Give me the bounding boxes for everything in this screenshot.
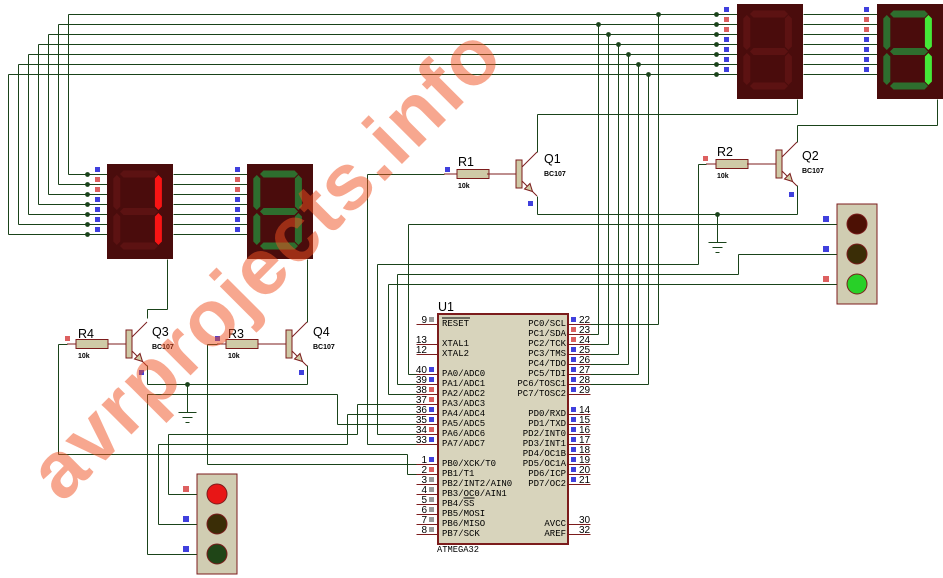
wire TR1-green to pin35 xyxy=(338,424,417,426)
pin indicator U1 right y=344 xyxy=(571,337,576,342)
wire TR2-yellow to pin39 xyxy=(398,384,417,386)
transistor Q4 emitter line xyxy=(292,351,302,361)
transistor Q3 emitter arrowhead xyxy=(135,354,143,362)
U1 right pin stub y=394 xyxy=(569,394,591,396)
wire net-R4 vertical x=58 xyxy=(58,345,60,455)
pin indicator Q4 emitter xyxy=(299,370,304,375)
resistor R4 pin xyxy=(108,343,126,345)
U1 left pin stub y=434 xyxy=(417,434,439,436)
svg-text:PB4/SS: PB4/SS xyxy=(442,499,474,509)
wire PC pin row y=344 xyxy=(591,344,609,346)
pin indicator DS1 row7 xyxy=(95,227,100,232)
wire seg-bus1 left vertical xyxy=(58,25,60,185)
U1 right pin stub y=434 xyxy=(569,434,591,436)
display DS1 segment e xyxy=(113,213,120,245)
wire seg-bus5 to display DS1 pin xyxy=(19,224,108,226)
wire seg-bus0 top horizontal xyxy=(69,14,738,16)
svg-text:PC4/TDO: PC4/TDO xyxy=(528,359,566,369)
wire DS1-DS2 row y=234 xyxy=(174,234,248,236)
wire TR1-green pin row xyxy=(148,554,198,556)
wire TR1-red vertical x=357 xyxy=(357,405,359,435)
7-segment display DS3 body xyxy=(737,4,803,99)
display DS2 segment a xyxy=(260,171,298,178)
ground symbol left bars xyxy=(179,412,197,414)
TL2 yellow lamp (off) xyxy=(847,244,867,264)
pin indicator U1 left y=394 xyxy=(429,387,434,392)
display DS3 segment a xyxy=(750,11,788,18)
resistor R1 body xyxy=(457,170,489,179)
pin indicator DS4 row3 xyxy=(864,27,869,32)
wire DS1-DS2 row y=224 xyxy=(174,224,248,226)
transistor Q4 collector line xyxy=(292,322,307,337)
pin indicator U1 left y=504 xyxy=(429,497,434,502)
pin indicator DS4 row7 xyxy=(864,67,869,72)
svg-text:PA4/ADC4: PA4/ADC4 xyxy=(442,409,485,419)
pin indicator U1 left y=514 xyxy=(429,507,434,512)
svg-text:9: 9 xyxy=(421,315,427,326)
wire DS2 common down xyxy=(307,260,309,323)
U1 left pin stub y=424 xyxy=(417,424,439,426)
pin indicator U1 left y=464 xyxy=(429,457,434,462)
svg-text:ATMEGA32: ATMEGA32 xyxy=(437,545,479,555)
svg-text:PA5/ADC5: PA5/ADC5 xyxy=(442,419,485,429)
wire DS3-DS4 row y=64 xyxy=(804,64,878,66)
pin indicator U1 left y=374 xyxy=(429,367,434,372)
svg-text:RESET: RESET xyxy=(442,319,470,329)
wire DS1-DS2 row y=174 xyxy=(174,174,248,176)
ATMEGA32 U1 chip body xyxy=(438,314,568,544)
wire PC bus vertical x=608 xyxy=(608,35,610,345)
wire Q3 emitter vertical xyxy=(147,366,149,385)
wire Q1 emitter vertical xyxy=(537,197,539,215)
pin indicator U1 left y=444 xyxy=(429,437,434,442)
display DS1 segment d xyxy=(120,243,158,250)
7-segment display DS4 body xyxy=(877,4,943,99)
display DS4 segment g xyxy=(890,48,928,55)
pin indicator DS3 row2 xyxy=(724,17,729,22)
wire DS3-DS4 row y=14 xyxy=(804,14,878,16)
wire net-R4 to pin2 xyxy=(408,474,417,476)
U1 left pin stub y=414 xyxy=(417,414,439,416)
svg-text:PD0/RXD: PD0/RXD xyxy=(528,409,566,419)
wire PC bus vertical x=628 xyxy=(628,55,630,365)
pin indicator TR2 yellow xyxy=(823,246,829,252)
svg-text:AREF: AREF xyxy=(544,529,566,539)
pin indicator U1 right y=374 xyxy=(571,367,576,372)
U1 left pin stub y=374 xyxy=(417,374,439,376)
display DS3 segment g xyxy=(750,48,788,55)
junction on bus row y=14 xyxy=(656,12,661,17)
pin indicator DS1 row5 xyxy=(95,207,100,212)
svg-text:PC6/TOSC1: PC6/TOSC1 xyxy=(517,379,566,389)
wire seg-bus6 to display DS1 pin xyxy=(9,234,108,236)
pin indicator U1 right y=484 xyxy=(571,477,576,482)
wire seg-bus3 left vertical xyxy=(38,45,40,205)
pin indicator U1 right y=394 xyxy=(571,387,576,392)
wire TR2-yellow jog vertical xyxy=(738,255,740,275)
U1 left pin stub y=484 xyxy=(417,484,439,486)
display DS4 segment c xyxy=(925,53,932,85)
wire seg-bus0 left vertical xyxy=(68,15,70,175)
svg-text:PA7/ADC7: PA7/ADC7 xyxy=(442,439,485,449)
wire net-R1 to pin33 xyxy=(368,444,417,446)
wire TR1-yellow horizontal y=444 xyxy=(159,444,348,446)
U1 right pin stub y=534 xyxy=(569,534,591,536)
pin indicator U1 left y=324 xyxy=(429,317,434,322)
pin indicator Q2 emitter xyxy=(789,192,794,197)
U1 right pin stub y=444 xyxy=(569,444,591,446)
wire seg-bus2 to display DS1 pin xyxy=(49,194,108,196)
U1 left pin stub y=394 xyxy=(417,394,439,396)
svg-text:PD3/INT1: PD3/INT1 xyxy=(523,439,566,449)
wire ground rail left xyxy=(148,384,308,386)
wire PC bus vertical x=638 xyxy=(638,65,640,375)
wire TR2-green horizontal y=284 xyxy=(389,284,838,286)
resistor R2 body xyxy=(716,160,748,169)
wire DS3-DS4 row y=44 xyxy=(804,44,878,46)
svg-text:BC107: BC107 xyxy=(802,168,824,175)
transistor Q2 emitter line xyxy=(782,171,792,181)
display DS4 segment b xyxy=(925,15,932,50)
pin indicator U1 right y=364 xyxy=(571,357,576,362)
wire net-R1 vertical x=367 xyxy=(367,175,369,445)
transistor Q2 collector line xyxy=(782,142,797,157)
transistor Q4 emitter arrowhead xyxy=(295,354,303,362)
resistor R3 body xyxy=(226,340,258,349)
svg-text:Q1: Q1 xyxy=(544,152,561,166)
U1 right pin stub y=414 xyxy=(569,414,591,416)
pin indicator R2 left xyxy=(703,156,708,161)
svg-text:PA0/ADC0: PA0/ADC0 xyxy=(442,369,485,379)
pin indicator DS4 row5 xyxy=(864,47,869,52)
svg-text:32: 32 xyxy=(579,525,591,536)
pin indicator DS2 row7 xyxy=(235,227,240,232)
svg-text:R1: R1 xyxy=(458,155,474,169)
U1 right pin stub y=324 xyxy=(569,324,591,326)
wire TR1-green vertical x=147 xyxy=(147,395,149,555)
wire TR2-yellow pin row xyxy=(739,254,838,256)
wire TR1-yellow pin row xyxy=(159,524,198,526)
pin indicator DS2 row4 xyxy=(235,197,240,202)
resistor R2 pin xyxy=(747,163,776,165)
display DS1 segment g xyxy=(120,208,158,215)
junction DS3 pin y=24 xyxy=(714,22,719,27)
junction DS1 pin y=204 xyxy=(85,202,90,207)
svg-text:8: 8 xyxy=(421,525,427,536)
junction on bus row y=34 xyxy=(606,32,611,37)
display DS2 segment f xyxy=(253,175,260,210)
wire TR2-yellow vertical x=397 xyxy=(397,275,399,385)
junction DS1 pin y=174 xyxy=(85,172,90,177)
wire ground stem left xyxy=(187,385,189,413)
wire DS1 common down xyxy=(167,260,169,310)
pin indicator DS2 row1 xyxy=(235,167,240,172)
wire PC bus vertical x=618 xyxy=(618,45,620,355)
wire TR1-green horizontal y=394 xyxy=(148,394,338,396)
U1 left pin stub y=464 xyxy=(417,464,439,466)
display DS2 segment e xyxy=(253,213,260,245)
svg-text:PD7/OC2: PD7/OC2 xyxy=(528,479,566,489)
transistor Q3 BC107 body bar xyxy=(126,330,132,358)
transistor Q3 collector line xyxy=(132,322,147,337)
wire seg-bus3 top horizontal xyxy=(39,44,738,46)
display DS4 segment f xyxy=(883,15,890,50)
wire DS3 common horizontal xyxy=(538,114,798,116)
pin indicator DS3 row4 xyxy=(724,37,729,42)
wire net-R2 vertical x=698 xyxy=(698,165,700,265)
TL1 red lamp (lit) xyxy=(207,484,227,504)
junction ground right xyxy=(715,212,720,217)
wire R3 left wire xyxy=(208,344,218,346)
wire TR2-red vertical x=408 xyxy=(408,225,410,375)
U1 right pin stub y=354 xyxy=(569,354,591,356)
display DS3 segment e xyxy=(743,53,750,85)
U1 left pin stub y=384 xyxy=(417,384,439,386)
wire PC pin row y=324 xyxy=(591,324,659,326)
pin indicator DS2 row6 xyxy=(235,217,240,222)
wire DS3 common down xyxy=(797,100,799,115)
svg-text:R4: R4 xyxy=(78,327,94,341)
wire net-R2 vertical x=377 xyxy=(377,265,379,435)
pin indicator U1 left y=434 xyxy=(429,427,434,432)
pin indicator R4 left xyxy=(65,336,70,341)
U1 right pin stub y=364 xyxy=(569,364,591,366)
wire DS3-DS4 row y=34 xyxy=(804,34,878,36)
junction DS1 pin y=214 xyxy=(85,212,90,217)
wire Q3 collector vertical xyxy=(147,310,149,319)
TL1 green lamp (off) xyxy=(207,544,227,564)
resistor R3 pin xyxy=(217,343,226,345)
wire seg-bus6 left vertical xyxy=(8,75,10,235)
wire DS1-DS2 row y=204 xyxy=(174,204,248,206)
wire seg-bus3 to display DS1 pin xyxy=(39,204,108,206)
pin indicator U1 right y=324 xyxy=(571,317,576,322)
svg-text:PB7/SCK: PB7/SCK xyxy=(442,529,480,539)
pin indicator DS4 row2 xyxy=(864,17,869,22)
wire TR1-red horizontal y=434 xyxy=(169,434,358,436)
wire DS1-DS2 row y=194 xyxy=(174,194,248,196)
svg-text:PD4/OC1B: PD4/OC1B xyxy=(523,449,567,459)
pin indicator DS2 row5 xyxy=(235,207,240,212)
U1 right pin stub y=424 xyxy=(569,424,591,426)
wire seg-bus2 top horizontal xyxy=(49,34,738,36)
wire PC pin row y=384 xyxy=(591,384,649,386)
transistor Q2 emitter arrowhead xyxy=(785,174,793,182)
wire TR2-green to pin38 xyxy=(389,394,417,396)
U1 left pin stub y=444 xyxy=(417,444,439,446)
wire net-R3 vertical x=207 xyxy=(207,345,209,465)
pin indicator U1 right y=414 xyxy=(571,407,576,412)
display DS1 segment a xyxy=(120,171,158,178)
pin indicator U1 right y=454 xyxy=(571,447,576,452)
display DS2 segment g xyxy=(260,208,298,215)
svg-text:BC107: BC107 xyxy=(544,171,566,178)
wire seg-bus1 to display DS1 pin xyxy=(59,184,108,186)
7-segment display DS2 body xyxy=(247,164,313,259)
pin indicator U1 right y=334 xyxy=(571,327,576,332)
svg-text:PB6/MISO: PB6/MISO xyxy=(442,519,485,529)
resistor R1 pin xyxy=(487,173,516,175)
svg-text:Q4: Q4 xyxy=(313,325,330,339)
display DS3 segment b xyxy=(785,15,792,50)
svg-text:PA3/ADC3: PA3/ADC3 xyxy=(442,399,485,409)
wire R4 left wire xyxy=(59,344,68,346)
pin indicator DS4 row6 xyxy=(864,57,869,62)
junction DS1 pin y=194 xyxy=(85,192,90,197)
pin indicator R3 left xyxy=(215,336,220,341)
pin indicator DS3 row5 xyxy=(724,47,729,52)
pin indicator U1 right y=434 xyxy=(571,427,576,432)
display DS3 segment c xyxy=(785,53,792,85)
pin indicator U1 left y=494 xyxy=(429,487,434,492)
pin indicator U1 right y=424 xyxy=(571,417,576,422)
svg-text:PC2/TCK: PC2/TCK xyxy=(528,339,566,349)
svg-text:PB1/T1: PB1/T1 xyxy=(442,469,474,479)
wire PC pin row y=334 xyxy=(591,334,599,336)
wire Q1 collector vertical xyxy=(537,115,539,153)
wire DS3-DS4 row y=74 xyxy=(804,74,878,76)
transistor Q1 collector line xyxy=(522,152,537,167)
junction on bus row y=64 xyxy=(636,62,641,67)
wire seg-bus5 left vertical xyxy=(18,65,20,225)
wire seg-bus4 top horizontal xyxy=(29,54,738,56)
display DS2 segment c xyxy=(295,213,302,245)
svg-text:PB0/XCK/T0: PB0/XCK/T0 xyxy=(442,459,496,469)
display DS1 segment c xyxy=(155,213,162,245)
svg-text:PB5/MOSI: PB5/MOSI xyxy=(442,509,485,519)
pin indicator U1 left y=524 xyxy=(429,517,434,522)
display DS4 segment a xyxy=(890,11,928,18)
U1 right pin stub y=454 xyxy=(569,454,591,456)
display DS1 segment f xyxy=(113,175,120,210)
U1 right pin stub y=374 xyxy=(569,374,591,376)
U1 left pin stub y=534 xyxy=(417,534,439,536)
wire PC bus vertical x=648 xyxy=(648,75,650,385)
svg-text:BC107: BC107 xyxy=(313,344,335,351)
U1 left pin stub y=514 xyxy=(417,514,439,516)
svg-text:PD2/INT0: PD2/INT0 xyxy=(523,429,566,439)
display DS4 segment e xyxy=(883,53,890,85)
wire DS1-DS2 row y=184 xyxy=(174,184,248,186)
junction on bus row y=24 xyxy=(596,22,601,27)
pin indicator U1 right y=354 xyxy=(571,347,576,352)
svg-text:PC3/TMS: PC3/TMS xyxy=(528,349,566,359)
U1 right pin stub y=334 xyxy=(569,334,591,336)
wire TR1-red vertical x=168 xyxy=(168,435,170,495)
wire TR1-red to pin37 xyxy=(358,404,417,406)
pin indicator Q1 emitter xyxy=(528,201,533,206)
pin indicator TR1 yellow xyxy=(183,516,189,522)
pin indicator R1 left xyxy=(445,167,450,172)
pin indicator DS3 row1 xyxy=(724,7,729,12)
pin indicator DS2 row3 xyxy=(235,187,240,192)
pin indicator U1 left y=404 xyxy=(429,397,434,402)
wire seg-bus2 left vertical xyxy=(48,35,50,195)
pin indicator U1 left y=384 xyxy=(429,377,434,382)
resistor R4 body xyxy=(76,340,108,349)
wire seg-bus0 to display DS1 pin xyxy=(69,174,108,176)
wire DS3-DS4 row y=54 xyxy=(804,54,878,56)
wire DS1 common horizontal xyxy=(148,309,168,311)
wire net-R3 to pin1 xyxy=(208,464,417,466)
wire TR1-yellow to pin36 xyxy=(348,414,417,416)
junction DS3 pin y=34 xyxy=(714,32,719,37)
svg-text:PA2/ADC2: PA2/ADC2 xyxy=(442,389,485,399)
junction on bus row y=74 xyxy=(646,72,651,77)
pin indicator U1 left y=414 xyxy=(429,407,434,412)
wire seg-bus6 top horizontal xyxy=(9,74,738,76)
wire seg-bus4 to display DS1 pin xyxy=(29,214,108,216)
pin indicator U1 right y=444 xyxy=(571,437,576,442)
svg-text:PC1/SDA: PC1/SDA xyxy=(528,329,566,339)
display DS3 segment d xyxy=(750,83,788,90)
wire ground rail right xyxy=(538,214,798,216)
pin indicator DS1 row4 xyxy=(95,197,100,202)
pin indicator TR1 green xyxy=(183,546,189,552)
pin indicator DS3 row6 xyxy=(724,57,729,62)
wire seg-bus1 top horizontal xyxy=(59,24,738,26)
svg-text:PD1/TXD: PD1/TXD xyxy=(528,419,566,429)
7-segment display DS1 body xyxy=(107,164,173,259)
display DS1 segment b xyxy=(155,175,162,210)
wire net-R2 horizontal y=264 xyxy=(378,264,699,266)
svg-text:12: 12 xyxy=(416,345,428,356)
pin indicator DS3 row3 xyxy=(724,27,729,32)
display DS2 segment d xyxy=(260,243,298,250)
wire PC bus vertical x=658 xyxy=(658,15,660,325)
pin indicator U1 left y=474 xyxy=(429,467,434,472)
wire net-R4 jog vertical x=407 xyxy=(407,455,409,475)
junction DS1 pin y=224 xyxy=(85,222,90,227)
wire net-R2 to pin34 xyxy=(378,434,417,436)
U1 left pin stub y=354 xyxy=(417,354,439,356)
svg-text:21: 21 xyxy=(579,475,591,486)
wire TR1-red pin row xyxy=(169,494,198,496)
traffic light TL2 (right, green lit) body xyxy=(837,204,877,304)
junction DS3 pin y=14 xyxy=(714,12,719,17)
pin indicator TR2 red xyxy=(823,216,829,222)
transistor Q1 emitter arrowhead xyxy=(525,184,533,192)
svg-text:R2: R2 xyxy=(717,145,733,159)
display DS3 segment f xyxy=(743,15,750,50)
wire TR2-red horizontal y=224 xyxy=(409,224,838,226)
wire PC pin row y=364 xyxy=(591,364,629,366)
junction ground left xyxy=(185,382,190,387)
ground symbol right bars xyxy=(709,242,727,244)
U1 right pin stub y=474 xyxy=(569,474,591,476)
TL1 yellow lamp (off) xyxy=(207,514,227,534)
wire PC pin row y=354 xyxy=(591,354,619,356)
pin indicator TR2 green xyxy=(823,276,829,282)
wire DS3-DS4 row y=24 xyxy=(804,24,878,26)
wire DS4 common down xyxy=(937,100,939,126)
junction on bus row y=44 xyxy=(616,42,621,47)
svg-text:PD5/OC1A: PD5/OC1A xyxy=(523,459,567,469)
svg-text:PC0/SCL: PC0/SCL xyxy=(528,319,566,329)
transistor Q1 emitter line xyxy=(522,181,532,191)
transistor Q3 emitter line xyxy=(132,351,142,361)
wire Q4 emitter vertical xyxy=(307,366,309,385)
wire Q2 emitter vertical xyxy=(797,186,799,215)
resistor R3 pin xyxy=(258,343,286,345)
pin indicator U1 left y=424 xyxy=(429,417,434,422)
wire TR1-yellow vertical x=158 xyxy=(158,445,160,525)
svg-text:33: 33 xyxy=(416,435,428,446)
TL2 red lamp (off) xyxy=(847,214,867,234)
pin indicator U1 right y=384 xyxy=(571,377,576,382)
junction DS3 pin y=64 xyxy=(714,62,719,67)
U1 left pin stub y=324 xyxy=(417,324,439,326)
